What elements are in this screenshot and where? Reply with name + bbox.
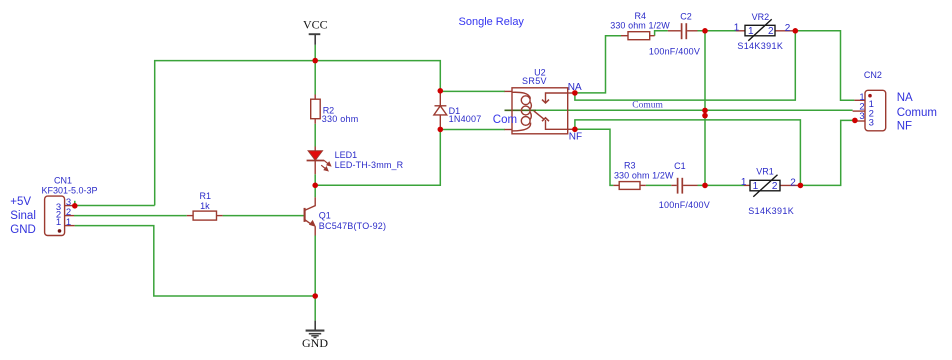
svg-text:330 ohm 1/2W: 330 ohm 1/2W xyxy=(610,21,670,31)
svg-text:1: 1 xyxy=(753,181,759,192)
svg-text:Com: Com xyxy=(493,114,517,126)
svg-text:1N4007: 1N4007 xyxy=(449,114,482,124)
svg-text:3: 3 xyxy=(869,118,874,129)
svg-text:CN1: CN1 xyxy=(54,176,72,186)
svg-text:3: 3 xyxy=(859,111,864,122)
svg-text:1: 1 xyxy=(56,217,61,228)
svg-text:C1: C1 xyxy=(674,161,686,171)
svg-text:1k: 1k xyxy=(200,201,210,211)
svg-text:NA: NA xyxy=(897,92,913,104)
svg-text:SR5V: SR5V xyxy=(522,76,547,86)
svg-text:Comum: Comum xyxy=(632,101,663,111)
svg-text:100nF/400V: 100nF/400V xyxy=(649,47,700,57)
svg-text:2: 2 xyxy=(785,23,791,34)
svg-text:+5V: +5V xyxy=(10,196,31,208)
svg-text:VCC: VCC xyxy=(303,18,328,32)
svg-text:330 ohm 1/2W: 330 ohm 1/2W xyxy=(614,171,674,181)
svg-text:C2: C2 xyxy=(680,11,692,21)
svg-text:LED1: LED1 xyxy=(335,150,358,160)
svg-text:KF301-5.0-3P: KF301-5.0-3P xyxy=(41,186,97,196)
svg-text:Q1: Q1 xyxy=(319,210,331,220)
svg-text:R4: R4 xyxy=(635,11,647,21)
svg-text:1: 1 xyxy=(741,177,747,188)
svg-text:S14K391K: S14K391K xyxy=(737,41,783,51)
svg-text:R3: R3 xyxy=(624,161,636,171)
svg-text:100nF/400V: 100nF/400V xyxy=(659,200,710,210)
svg-text:Sinal: Sinal xyxy=(10,210,36,222)
svg-text:CN2: CN2 xyxy=(864,70,882,80)
svg-text:LED-TH-3mm_R: LED-TH-3mm_R xyxy=(335,160,404,170)
svg-text:R1: R1 xyxy=(200,191,212,201)
svg-text:BC547B(TO-92): BC547B(TO-92) xyxy=(319,221,386,231)
svg-text:Comum: Comum xyxy=(897,107,937,119)
svg-text:VR2: VR2 xyxy=(752,12,770,22)
svg-text:GND: GND xyxy=(10,224,36,236)
svg-text:1: 1 xyxy=(66,217,71,228)
svg-text:VR1: VR1 xyxy=(756,166,774,176)
svg-text:1: 1 xyxy=(748,26,754,37)
svg-text:2: 2 xyxy=(790,177,796,188)
svg-text:330 ohm: 330 ohm xyxy=(322,114,359,124)
svg-text:GND: GND xyxy=(302,336,328,350)
svg-text:NF: NF xyxy=(569,132,582,143)
svg-text:Songle Relay: Songle Relay xyxy=(459,16,525,28)
svg-text:NF: NF xyxy=(897,121,912,133)
svg-text:1: 1 xyxy=(734,22,740,33)
svg-text:2: 2 xyxy=(768,26,774,37)
svg-text:2: 2 xyxy=(772,181,778,192)
svg-text:NA: NA xyxy=(568,82,582,93)
svg-text:S14K391K: S14K391K xyxy=(748,206,794,216)
